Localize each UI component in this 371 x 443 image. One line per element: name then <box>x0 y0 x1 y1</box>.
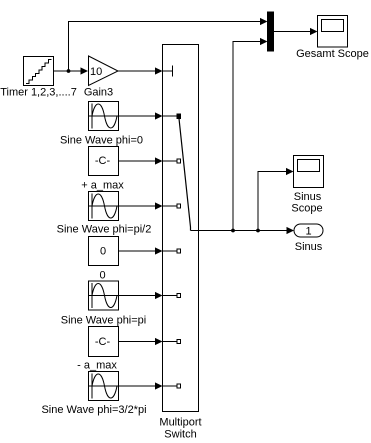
svg-text:- a_max: - a_max <box>77 360 117 372</box>
svg-text:Gesamt Scope: Gesamt Scope <box>296 48 369 60</box>
svg-text:Sine Wave phi=3/2*pi: Sine Wave phi=3/2*pi <box>41 404 146 416</box>
svg-text:Sinus: Sinus <box>294 191 322 203</box>
svg-text:Gain3: Gain3 <box>84 87 113 99</box>
wire Sine Wave phi=pi to Multiport Switch in5 <box>119 292 163 299</box>
svg-text:+ a_max: + a_max <box>81 180 124 192</box>
svg-text:10: 10 <box>90 66 102 78</box>
block Timer 1,2,3,....7 <box>0 57 77 99</box>
constant block 0 <box>89 237 119 282</box>
Multiport Switch input port stub 1 <box>163 114 181 119</box>
svg-text:Sine Wave phi=pi: Sine Wave phi=pi <box>61 315 147 327</box>
svg-text:Multiport: Multiport <box>159 417 201 429</box>
outport 1 Sinus <box>294 224 323 253</box>
wire Sine Wave phi=0 to Multiport Switch in1 <box>119 112 163 119</box>
Multiport Switch input port stub 5 <box>163 294 181 298</box>
block Sine Wave phi=pi/2 <box>57 192 152 236</box>
wire switch output to Sinus Scope <box>258 168 294 231</box>
wire Timer junction to Mux input 1 <box>69 18 268 71</box>
wire Multiport Switch output to Sinus outport <box>191 227 295 234</box>
wire + a_max to Multiport Switch in2 <box>119 157 163 164</box>
Multiport Switch input port stub 6 <box>163 340 181 344</box>
wire Gain3 to Multiport Switch control port <box>118 67 163 74</box>
svg-text:0: 0 <box>100 246 106 258</box>
Multiport Switch input port stub 4 <box>163 249 181 253</box>
svg-text:-C-: -C- <box>95 336 111 348</box>
Multiport Switch selector diagonal <box>179 119 191 231</box>
Multiport Switch control port marker <box>163 66 173 77</box>
svg-text:Timer 1,2,3,....7: Timer 1,2,3,....7 <box>0 87 77 99</box>
svg-text:Sinus: Sinus <box>295 241 323 253</box>
constant block -C- (- a_max) <box>77 327 118 372</box>
gain Gain3 <box>84 56 118 99</box>
svg-text:0: 0 <box>99 270 105 282</box>
block Sine Wave phi=0 <box>60 102 143 147</box>
svg-text:-C-: -C- <box>95 155 111 167</box>
wire Mux to Gesamt Scope <box>274 28 318 35</box>
Multiport Switch input port stub 3 <box>163 204 181 208</box>
wire - a_max to Multiport Switch in6 <box>119 338 163 345</box>
svg-text:Switch: Switch <box>164 429 196 441</box>
wire Timer to Gain3 <box>54 67 89 74</box>
svg-text:Sine Wave phi=0: Sine Wave phi=0 <box>60 135 143 147</box>
junction on output wire at x=233 <box>231 229 235 233</box>
wire Sine Wave phi=pi/2 to Multiport Switch in3 <box>119 202 163 209</box>
mux Mux <box>268 12 274 51</box>
scope Gesamt Scope <box>296 16 369 61</box>
Multiport Switch input port stub 2 <box>163 159 181 163</box>
block Sine Wave phi=3/2*pi <box>41 372 146 417</box>
svg-text:Sine Wave phi=pi/2: Sine Wave phi=pi/2 <box>57 224 152 236</box>
wire 0 to Multiport Switch in4 <box>119 247 163 254</box>
junction on output wire at x=258 <box>256 229 260 233</box>
constant block -C- (+ a_max) <box>81 147 124 192</box>
wire switch output to Mux input 2 <box>233 38 268 231</box>
junction at Timer output <box>67 69 71 73</box>
block Sine Wave phi=pi <box>61 281 147 327</box>
svg-text:1: 1 <box>305 226 311 238</box>
scope Sinus Scope <box>291 156 323 215</box>
block Multiport Switch <box>159 45 201 441</box>
Multiport Switch input port stub 7 <box>163 384 181 388</box>
svg-text:Scope: Scope <box>291 203 322 215</box>
wire Sine Wave phi=3/2*pi to Multiport Switch in7 <box>119 382 163 389</box>
